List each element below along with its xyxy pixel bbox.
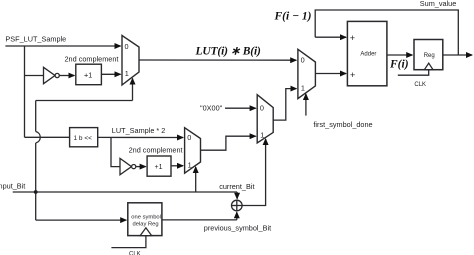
svg-text:Reg: Reg (424, 53, 435, 59)
wire mux M1 output LUT(i)*B(i) to mux M4 input 0 (139, 59, 296, 61)
inverter U1 (44, 67, 56, 83)
svg-text:+: + (350, 33, 355, 43)
svg-text:0: 0 (260, 104, 264, 113)
svg-text:first_symbol_done: first_symbol_done (313, 120, 372, 129)
svg-text:Input_Bit: Input_Bit (0, 182, 25, 191)
svg-text:LUT_Sample * 2: LUT_Sample * 2 (112, 126, 166, 135)
wire +1 second to mux M2 input 1 (171, 165, 183, 167)
wire Input_Bit branch vertical (to M1 select and delay reg) with hop (35, 101, 37, 132)
wire adder output F(i) to Reg (387, 54, 412, 56)
adder U3 (347, 21, 387, 85)
svg-text:+1: +1 (84, 70, 92, 79)
svg-text:2nd complement: 2nd complement (65, 55, 119, 64)
svg-text:Adder: Adder (360, 52, 376, 58)
wire mux M2 select from Input_Bit (195, 167, 197, 192)
label CLK (Reg) (414, 82, 426, 88)
inverter U2 (120, 158, 132, 174)
wire 1b feed (25, 136, 70, 138)
wire branch to inverter U1 (25, 75, 44, 77)
label LUT(i)*B(i) (195, 46, 261, 58)
label "0X00" (200, 104, 223, 113)
svg-text:CLK: CLK (129, 251, 141, 255)
svg-text:+: + (350, 70, 355, 80)
wire Input_Bit horizontal to XOR (13, 191, 237, 193)
wire +1 to mux M1 input 1 (101, 73, 120, 75)
node Input_Bit label (0, 182, 25, 191)
svg-text:2nd complement: 2nd complement (129, 146, 183, 155)
label previous_symbol_Bit (204, 224, 271, 233)
svg-text:1: 1 (260, 131, 264, 140)
wire feedback Sum to adder top input F(i-1) (315, 10, 458, 55)
svg-text:F(i − 1): F(i − 1) (274, 11, 312, 23)
wire CLK stub to Reg (398, 70, 429, 76)
svg-text:+1: +1 (155, 164, 163, 171)
wire current_Bit down into XOR top (236, 192, 238, 199)
svg-text:"0X00": "0X00" (200, 104, 223, 113)
node PSF_LUT_Sample label (5, 35, 66, 44)
wire inverter U2 to +1 box 2 (136, 166, 146, 168)
wire Reg output Sum_value out (443, 54, 472, 56)
mux M2 (185, 128, 201, 174)
label LUT_Sample * 2 (112, 126, 166, 135)
svg-text:0: 0 (125, 42, 129, 51)
mux M3 (257, 95, 273, 143)
label 2nd complement (second) (129, 146, 183, 155)
svg-text:previous_symbol_Bit: previous_symbol_Bit (204, 224, 271, 233)
wire CLK stub to delay reg (111, 236, 145, 248)
svg-text:1: 1 (125, 69, 129, 78)
mux M4 (298, 49, 316, 98)
wire XOR output to mux M3 select (242, 144, 266, 206)
register one symbol delay Reg (128, 203, 162, 236)
svg-text:current_Bit: current_Bit (219, 182, 254, 191)
svg-text:LUT(i) ∗ B(i): LUT(i) ∗ B(i) (195, 46, 261, 58)
clock triangle Reg (424, 63, 433, 69)
svg-text:delay Reg: delay Reg (133, 222, 159, 228)
label Sum_value (420, 0, 457, 8)
label first_symbol_done (313, 120, 372, 129)
wire 1b out to mux M2 input 0 (98, 136, 183, 138)
svg-text:PSF_LUT_Sample: PSF_LUT_Sample (5, 35, 66, 44)
label F(i-1) (274, 11, 312, 23)
xor gate X1 (232, 200, 243, 211)
block +1 (first) (76, 64, 102, 85)
block 1 b << (70, 128, 98, 147)
svg-text:1 b <<: 1 b << (74, 135, 93, 142)
svg-text:F(i): F(i) (389, 59, 409, 71)
wire Input_Bit to delay reg input (36, 219, 127, 221)
svg-text:1: 1 (301, 84, 305, 93)
wire 0X00 to mux M3 input 0 (225, 107, 256, 109)
svg-text:0: 0 (187, 133, 191, 142)
junction Input_Bit (34, 190, 38, 194)
svg-text:Sum_value: Sum_value (420, 0, 457, 8)
wire mux M4 select stub first_symbol_done (305, 94, 307, 116)
wire vertical branch from PSF wire down to 1b<< feed (24, 46, 26, 137)
wire PSF_LUT_Sample to mux M1 input 0 (5, 45, 120, 47)
label F(i) (389, 59, 409, 71)
label 2nd complement (first) (65, 55, 119, 64)
label current_Bit (219, 182, 254, 191)
clock triangle delay reg (140, 228, 151, 236)
block +1 (second) (147, 156, 171, 176)
svg-text:CLK: CLK (414, 82, 426, 88)
svg-text:one symbol: one symbol (131, 214, 161, 220)
wire mux M4 output to adder bottom input (315, 73, 346, 75)
wire inverter U1 to +1 box (60, 75, 75, 77)
wire mux M1 select from Input_Bit (36, 100, 133, 102)
label CLK (delay reg) (129, 251, 141, 255)
wire delay reg output to XOR bottom (162, 219, 237, 221)
wire mux M2 output jog to mux M3 input 1 (201, 136, 256, 150)
mux M1 (122, 36, 139, 86)
register Reg (414, 40, 443, 70)
wire mux M3 output to mux M4 input 1 (273, 89, 296, 121)
wire branch down to inverter U2 (111, 137, 120, 166)
svg-text:0: 0 (301, 56, 305, 65)
svg-text:1: 1 (188, 161, 192, 170)
